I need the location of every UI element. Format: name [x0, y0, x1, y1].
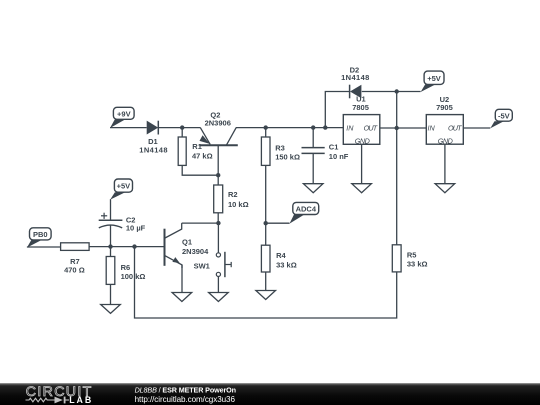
- CircuitLab logo diode: [55, 397, 70, 404]
- switch SW1 (pushbutton): [216, 252, 231, 277]
- ground under Q1 emitter: [172, 293, 192, 302]
- svg-text:IN: IN: [428, 124, 436, 133]
- svg-text:100 kΩ: 100 kΩ: [121, 272, 146, 281]
- ground under SW1: [209, 293, 229, 302]
- svg-text:7805: 7805: [352, 103, 369, 112]
- label R7 value: [64, 257, 85, 275]
- ground under U2: [435, 184, 455, 193]
- node bottom-rail branch junction: [132, 244, 136, 248]
- label R5 value: [407, 251, 428, 269]
- node R3/rail junction: [264, 125, 268, 129]
- svg-text:ADC4: ADC4: [296, 205, 317, 214]
- svg-text:C1: C1: [329, 143, 339, 152]
- svg-text:LAB: LAB: [69, 395, 91, 405]
- svg-text:R6: R6: [121, 263, 131, 272]
- resistor R4: [261, 245, 270, 272]
- wire R5 bottom to bottom rail to emitter branch: [135, 247, 397, 318]
- svg-text:OUT: OUT: [364, 124, 378, 133]
- svg-text:470 Ω: 470 Ω: [64, 266, 85, 275]
- node ADC4 flag: [290, 202, 319, 223]
- node C2/R6 junction: [108, 244, 112, 248]
- op-amp U2 (7905 regulator box): [426, 115, 463, 146]
- wire +5V anchor down to C2 plus plate: [110, 199, 112, 220]
- svg-text:OUT: OUT: [448, 124, 462, 133]
- wire C2 bottom plate to base rail: [110, 225, 112, 247]
- wire R3 top lead: [265, 128, 267, 137]
- wire R3 bottom to R4 top: [265, 165, 267, 245]
- transistor Q2 (PNP): [199, 128, 238, 146]
- node -5V flag: [490, 109, 512, 128]
- resistor R5: [392, 245, 401, 272]
- wire SW1 bottom lead to ground: [217, 277, 219, 293]
- capacitor C2 (polarized): [99, 213, 123, 228]
- resistor R6: [106, 257, 115, 285]
- wire ADC4 tap: [266, 222, 290, 224]
- svg-text:+9V: +9V: [117, 110, 131, 119]
- node R1/rail junction: [180, 125, 184, 129]
- label D1 value: [139, 137, 167, 154]
- svg-text:R1: R1: [192, 142, 202, 151]
- wire R7 to Q1 base: [89, 246, 164, 248]
- resistor R1: [178, 137, 186, 165]
- svg-text:-5V: -5V: [498, 111, 510, 120]
- ground under R4: [256, 291, 276, 300]
- wire U1 GND lead: [361, 144, 363, 183]
- wire R1 bottom lead to Q2 base node: [182, 165, 218, 175]
- label R1 value: [192, 142, 213, 161]
- wire D1 cathode to Q2 emitter: [158, 127, 200, 129]
- svg-text:+5V: +5V: [117, 182, 131, 191]
- svg-text:10 nF: 10 nF: [329, 152, 349, 161]
- wire C1 bottom lead to ground: [312, 153, 314, 183]
- label Q1 value: [182, 237, 209, 256]
- node +9V flag: [110, 107, 134, 128]
- wire U2 GND lead: [444, 144, 446, 184]
- svg-text:47 kΩ: 47 kΩ: [192, 151, 213, 160]
- node R1/Q2 base junction: [216, 173, 220, 177]
- diode D1: [147, 121, 158, 135]
- wire PB0 anchor to R7: [27, 246, 61, 248]
- label U1 value: [352, 94, 369, 112]
- node C1/rail junction: [311, 125, 315, 129]
- svg-text:33 kΩ: 33 kΩ: [407, 260, 428, 269]
- wire SW1 top lead: [217, 223, 219, 253]
- transistor Q1 (NPN): [165, 223, 183, 268]
- capacitor C1: [302, 148, 325, 154]
- svg-text:PB0: PB0: [33, 230, 48, 239]
- svg-text:R5: R5: [407, 251, 417, 260]
- wire U2 OUT to -5V anchor: [463, 127, 490, 129]
- wire D2 anode to +5V anchor: [362, 91, 421, 93]
- svg-text:150 kΩ: 150 kΩ: [275, 152, 300, 161]
- wire R1 top lead: [181, 128, 183, 137]
- svg-text:GND: GND: [438, 136, 453, 145]
- node +5V flag (left): [110, 179, 132, 200]
- svg-text:10 kΩ: 10 kΩ: [228, 200, 249, 209]
- resistor R3: [261, 137, 270, 165]
- svg-text:http://circuitlab.com/cgx3u36: http://circuitlab.com/cgx3u36: [135, 395, 236, 404]
- op-amp U1 (7805 regulator box): [343, 115, 380, 146]
- svg-text:7905: 7905: [436, 103, 453, 112]
- node R3/R4/ADC4 junction: [264, 221, 268, 225]
- wire +9V rail to D1 anode: [110, 127, 147, 129]
- svg-text:SW1: SW1: [194, 262, 210, 271]
- svg-text:33 kΩ: 33 kΩ: [276, 260, 297, 269]
- svg-text:2N3906: 2N3906: [205, 119, 231, 128]
- wire R6 top lead: [110, 247, 112, 257]
- wire Q1 collector to R2/SW1 node: [182, 222, 219, 224]
- resistor R7: [61, 243, 90, 251]
- svg-text:IN: IN: [346, 124, 354, 133]
- svg-text:GND: GND: [355, 136, 370, 145]
- svg-text:R3: R3: [275, 144, 285, 153]
- svg-text:2N3904: 2N3904: [182, 247, 209, 256]
- wire R2 bottom lead: [217, 213, 219, 223]
- svg-text:R4: R4: [276, 251, 286, 260]
- node D2/rail junction: [323, 125, 327, 129]
- node R2/SW1/Q1 collector junction: [216, 221, 220, 225]
- diode D2: [350, 85, 361, 99]
- label R6 value: [121, 263, 146, 281]
- svg-text:R2: R2: [228, 190, 238, 199]
- wire U1 OUT to U2 IN: [380, 127, 427, 129]
- resistor R2: [214, 185, 223, 213]
- wire Q1 emitter to ground: [181, 265, 183, 293]
- wire R6 bottom lead to ground: [110, 284, 112, 304]
- svg-text:10 µF: 10 µF: [126, 224, 146, 233]
- svg-text:1N4148: 1N4148: [341, 73, 369, 82]
- node +5V flag (top right): [421, 71, 444, 92]
- label C2 value: [126, 215, 146, 232]
- wire Q2 base to R2: [217, 146, 219, 185]
- label Q2 value: [205, 111, 231, 128]
- label D2 value: [341, 65, 369, 82]
- label R2 value: [228, 190, 249, 209]
- ground under U1: [352, 184, 372, 193]
- ground under R6: [101, 305, 121, 314]
- label R4 value: [276, 251, 297, 269]
- label R3 value: [275, 144, 300, 162]
- svg-text:Q1: Q1: [182, 237, 192, 246]
- node PB0 flag: [27, 228, 51, 248]
- node OUT rail / R5 junction: [395, 126, 399, 130]
- node D2 / +5V junction: [395, 89, 399, 93]
- wire Q2 collector to U1 IN: [236, 127, 343, 129]
- wire D2 left leg down to rail: [325, 92, 349, 128]
- svg-text:DL8BB / ESR METER PowerOn: DL8BB / ESR METER PowerOn: [135, 385, 236, 394]
- wire R4 bottom lead to ground: [265, 272, 267, 291]
- label C1 value: [329, 143, 349, 162]
- label U2 value: [436, 95, 453, 112]
- wire C1 top lead: [312, 128, 314, 148]
- svg-text:1N4148: 1N4148: [139, 146, 167, 155]
- ground under C1: [303, 184, 323, 193]
- svg-text:+5V: +5V: [427, 74, 441, 83]
- wire +5V node down through OUT rail to R5: [396, 92, 398, 245]
- CircuitLab logo resistor zigzag: [26, 398, 55, 402]
